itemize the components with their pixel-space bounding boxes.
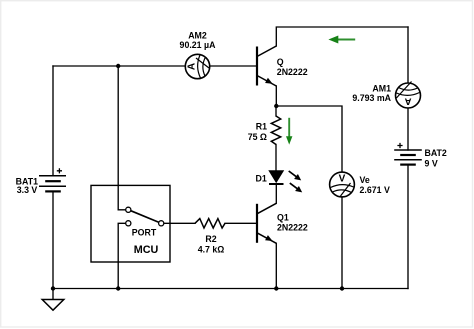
- svg-text:Q: Q: [277, 57, 284, 67]
- wire Q emitter to junction: [275, 86, 277, 106]
- wire ground stub: [52, 289, 54, 300]
- wire Ve bottom to ground rail: [341, 197, 343, 289]
- svg-text:90.21 µA: 90.21 µA: [180, 40, 217, 50]
- wire top-left horizontal rail: [53, 65, 257, 67]
- svg-text:R1: R1: [256, 122, 267, 132]
- svg-text:75 Ω: 75 Ω: [248, 132, 267, 142]
- battery BAT2: [394, 143, 422, 165]
- current arrow green top: [328, 36, 355, 44]
- transistor Q1: [257, 203, 276, 243]
- svg-text:V: V: [339, 173, 346, 184]
- junction node ground rail left: [51, 286, 55, 290]
- current arrow green R1: [286, 118, 292, 145]
- wire LED to Q1 collector: [275, 184, 277, 203]
- wire BAT2 bottom: [407, 165, 409, 289]
- wire Q1 emitter down: [275, 243, 277, 288]
- wire junction to R1 top: [275, 106, 277, 116]
- junction node ground rail Ve: [340, 286, 344, 290]
- wire left rail bottom segment: [52, 191, 54, 288]
- svg-text:2N2222: 2N2222: [277, 223, 308, 233]
- wire AM1 to BAT2: [407, 108, 409, 150]
- junction node ground rail Q1: [274, 286, 278, 290]
- svg-text:A: A: [404, 96, 411, 107]
- svg-text:2N2222: 2N2222: [277, 67, 308, 77]
- svg-text:3.3 V: 3.3 V: [17, 185, 38, 195]
- svg-text:D1: D1: [256, 173, 267, 183]
- svg-text:MCU: MCU: [134, 244, 159, 256]
- LED D1: [268, 170, 302, 192]
- battery BAT1: [39, 168, 66, 191]
- switch terminal top-left: [126, 207, 131, 212]
- svg-text:9.793 mA: 9.793 mA: [352, 93, 391, 103]
- ammeter AM1: [396, 82, 421, 109]
- switch terminal bottom-left: [126, 221, 131, 226]
- wire bottom ground rail: [53, 288, 408, 290]
- transistor Q: [257, 46, 276, 86]
- switch PORT lever: [131, 211, 159, 223]
- junction node ground rail MCU: [116, 286, 120, 290]
- resistor R2: [195, 219, 225, 228]
- svg-text:A: A: [186, 63, 197, 70]
- ammeter AM2: [185, 54, 209, 78]
- switch terminal right: [159, 221, 164, 226]
- voltmeter Ve: [330, 172, 355, 197]
- wire MCU ground drop: [118, 223, 126, 288]
- MCU box: [91, 185, 170, 262]
- wire switch output to R2: [164, 222, 195, 224]
- svg-text:9 V: 9 V: [425, 158, 438, 168]
- svg-text:Ve: Ve: [360, 175, 370, 185]
- svg-text:2.671 V: 2.671 V: [360, 185, 390, 195]
- wire R2 to Q1 base: [225, 222, 257, 224]
- wire left rail top segment: [52, 66, 54, 176]
- svg-text:Q1: Q1: [277, 213, 289, 223]
- wire top rail: [276, 27, 408, 46]
- svg-text:AM1: AM1: [372, 84, 391, 94]
- svg-text:BAT2: BAT2: [425, 148, 447, 158]
- junction node at MCU drop / top rail: [116, 64, 120, 68]
- junction node at Q emitter: [274, 104, 278, 108]
- wire MCU port drop from top rail: [118, 66, 126, 210]
- wire right branch top: [407, 27, 409, 83]
- resistor R1: [271, 116, 280, 145]
- svg-text:4.7 kΩ: 4.7 kΩ: [198, 245, 225, 255]
- ground: [42, 300, 64, 311]
- wire R1 bottom to LED: [275, 145, 277, 171]
- svg-text:PORT: PORT: [132, 228, 157, 238]
- svg-text:R2: R2: [205, 234, 216, 244]
- wire emitter rail to Ve: [276, 106, 342, 197]
